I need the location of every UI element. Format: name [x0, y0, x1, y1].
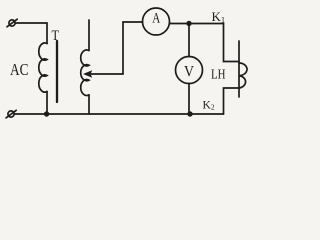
- wire voltmeter bottom: [188, 84, 190, 115]
- svg-text:T: T: [52, 28, 60, 44]
- wire top-left rail: [15, 23, 47, 44]
- heater LH rod: [238, 41, 240, 97]
- voltmeter V: [176, 57, 203, 84]
- terminal top-left (AC input): [7, 19, 17, 27]
- transformer T secondary winding: [81, 50, 89, 96]
- wire ammeter to K1 corner: [170, 24, 240, 62]
- svg-text:AC: AC: [10, 60, 29, 79]
- wire secondary bottom: [88, 95, 90, 114]
- ammeter A: [143, 8, 170, 35]
- transformer T core: [56, 41, 58, 102]
- transformer T secondary winding top stub: [88, 20, 90, 51]
- wire voltmeter branch top: [188, 24, 190, 57]
- bottom rail: [14, 113, 223, 115]
- junction dot primary/rail: [44, 111, 49, 116]
- wiper arrowhead: [83, 70, 92, 78]
- wiper arrow wire: [91, 22, 143, 74]
- junction dot top wire / voltmeter: [186, 21, 191, 26]
- svg-text:LH: LH: [211, 68, 226, 83]
- transformer T primary winding: [39, 43, 47, 92]
- svg-text:V: V: [184, 64, 194, 81]
- wire primary bottom: [46, 92, 48, 115]
- svg-text:A: A: [152, 11, 160, 27]
- junction dot voltmeter/rail: [187, 111, 192, 116]
- heater LH coil: [239, 63, 247, 88]
- wire heater bottom stub to K2 corner: [224, 88, 240, 114]
- terminal bottom-left (AC input): [6, 110, 16, 118]
